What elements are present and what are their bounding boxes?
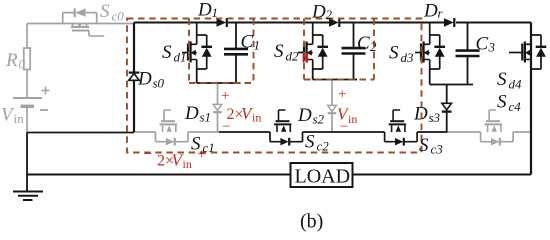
svg-text:S: S: [497, 69, 507, 90]
svg-text:D: D: [297, 105, 312, 126]
svg-text:D: D: [184, 103, 199, 124]
svg-text:1: 1: [212, 5, 219, 20]
svg-text:D: D: [137, 69, 152, 90]
svg-text:c0: c0: [112, 9, 125, 24]
svg-text:in: in: [348, 112, 357, 126]
svg-text:−: −: [340, 119, 348, 135]
svg-text:in: in: [252, 111, 261, 125]
svg-text:S: S: [274, 41, 284, 62]
svg-text:in: in: [14, 111, 25, 126]
svg-text:D: D: [413, 104, 428, 125]
svg-text:S: S: [419, 135, 429, 156]
svg-text:c2: c2: [317, 139, 330, 154]
svg-text:s0: s0: [153, 76, 165, 91]
svg-text:S: S: [497, 92, 507, 113]
svg-text:D: D: [423, 1, 438, 22]
svg-text:2: 2: [326, 7, 333, 22]
svg-text:−: −: [144, 147, 152, 163]
svg-text:in: in: [183, 157, 192, 171]
svg-text:d3: d3: [401, 50, 415, 65]
svg-text:C: C: [241, 32, 254, 53]
svg-text:S: S: [389, 43, 399, 64]
svg-text:S: S: [305, 132, 315, 153]
svg-text:S: S: [100, 1, 110, 22]
svg-text:+: +: [338, 87, 346, 103]
svg-text:−: −: [222, 119, 230, 135]
svg-text:d1: d1: [174, 50, 187, 65]
svg-text:R: R: [5, 50, 18, 71]
svg-text:LOAD: LOAD: [295, 166, 351, 188]
svg-text:c4: c4: [509, 99, 522, 114]
svg-text:s2: s2: [313, 112, 325, 127]
svg-text:D: D: [311, 2, 326, 23]
svg-text:(b): (b): [300, 211, 323, 233]
svg-text:2: 2: [370, 39, 377, 54]
svg-text:S: S: [162, 42, 172, 63]
svg-text:c3: c3: [431, 142, 444, 157]
svg-text:s3: s3: [429, 110, 441, 125]
svg-text:d2: d2: [286, 49, 300, 64]
svg-text:0: 0: [19, 57, 26, 72]
svg-text:D: D: [197, 0, 212, 21]
svg-text:3: 3: [488, 40, 496, 55]
svg-text:C: C: [476, 34, 489, 55]
svg-text:+: +: [221, 88, 229, 104]
svg-text:d4: d4: [509, 77, 523, 92]
svg-text:C: C: [357, 33, 370, 54]
svg-text:+: +: [198, 147, 206, 163]
svg-text:s1: s1: [200, 110, 212, 125]
svg-text:1: 1: [254, 38, 261, 53]
